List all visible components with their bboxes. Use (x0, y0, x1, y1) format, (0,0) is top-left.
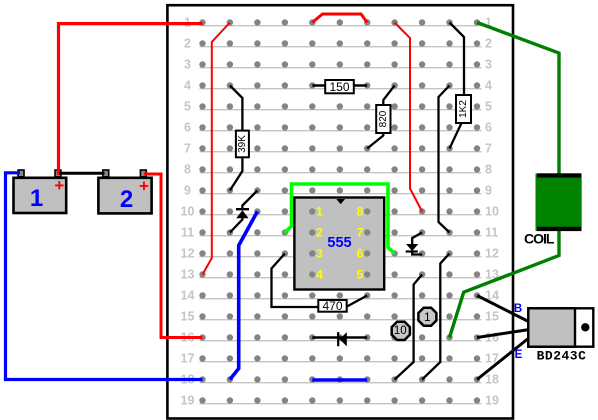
wire red jumper row1 col5 to row1 col7 (312, 14, 367, 23)
wire red battery1 positive to board row 1 (59, 24, 203, 175)
svg-text:E: E (515, 349, 523, 361)
svg-text:19: 19 (181, 394, 195, 408)
svg-text:3: 3 (184, 58, 191, 72)
svg-text:4: 4 (485, 79, 492, 93)
wire black transistor base lead from row14 col11 (477, 296, 530, 323)
svg-text:1: 1 (424, 310, 431, 324)
svg-text:7: 7 (184, 142, 191, 156)
wire black jumper row13 col9 to row18 col8 (395, 275, 423, 380)
battery B2 (98, 170, 151, 213)
svg-text:150: 150 (329, 80, 349, 94)
wire blue jumper row18 col5 to row18 col7 (312, 378, 367, 381)
coil L1 (524, 173, 582, 246)
wire green coil top to board row1 col11 (477, 23, 559, 177)
svg-text:39K: 39K (237, 135, 248, 153)
resistor R2 150 (325, 80, 354, 94)
svg-text:6: 6 (184, 121, 191, 135)
resistor R4 1K2 (456, 95, 471, 123)
svg-text:+: + (54, 176, 64, 195)
svg-text:1: 1 (30, 185, 43, 212)
svg-text:18: 18 (485, 373, 499, 387)
svg-text:19: 19 (485, 394, 499, 408)
svg-text:7: 7 (357, 226, 364, 240)
svg-text:14: 14 (181, 289, 195, 303)
svg-text:11: 11 (485, 226, 498, 240)
diode D1 leads and symbol (230, 191, 258, 233)
svg-text:9: 9 (485, 184, 492, 198)
svg-text:BD243C: BD243C (537, 349, 587, 364)
resistor 39K leads (230, 86, 243, 191)
resistor 1K2 leads (450, 23, 465, 149)
svg-text:4: 4 (184, 79, 191, 93)
svg-text:1K2: 1K2 (458, 100, 469, 118)
wire bright green bracket row11 col4 to row12 col8 (285, 184, 395, 254)
diode D2 leads and symbol (406, 233, 422, 255)
wire blue jumper row10 col3 to row18 col2 (230, 212, 258, 380)
wire black transistor collector lead from row16 col11 (477, 330, 530, 338)
transistor Q1 BD243C (514, 303, 593, 364)
svg-text:2: 2 (316, 226, 323, 240)
svg-text:1: 1 (316, 205, 323, 219)
svg-text:6: 6 (485, 121, 492, 135)
svg-text:+: + (139, 176, 149, 195)
svg-text:5: 5 (184, 100, 191, 114)
wire green coil bottom to board row16 col10 (450, 228, 560, 338)
svg-text:12: 12 (485, 247, 499, 261)
wire blue battery1 negative to board row 18 (6, 173, 203, 380)
svg-text:15: 15 (181, 310, 195, 324)
svg-text:2: 2 (184, 37, 191, 51)
wire black transistor emitter lead from row18 col11 (477, 338, 530, 380)
wire black jumper row4 col10 to row11 col10 (439, 86, 450, 233)
svg-text:10: 10 (181, 205, 195, 219)
resistor 470 leads (272, 254, 368, 308)
resistor R5 470 (318, 299, 346, 313)
svg-text:B: B (514, 303, 522, 315)
svg-text:6: 6 (357, 247, 364, 261)
svg-text:2: 2 (485, 37, 492, 51)
diode D3 (312, 332, 367, 346)
svg-text:3: 3 (485, 58, 492, 72)
resistor 150 leads (312, 84, 367, 87)
capacitor C2 1uF (418, 308, 436, 326)
svg-text:8: 8 (357, 205, 364, 219)
svg-text:5: 5 (485, 100, 492, 114)
svg-text:10: 10 (394, 325, 407, 337)
svg-text:10: 10 (485, 205, 499, 219)
wire black jumper row12 col10 to row18 col9 (422, 254, 449, 380)
svg-text:2: 2 (120, 186, 133, 213)
resistor R3 820 (376, 105, 390, 133)
svg-text:8: 8 (485, 163, 492, 177)
wire red jumper row1 col2 to row13 col1 (203, 23, 230, 275)
svg-text:555: 555 (327, 235, 351, 251)
wire black battery series link (59, 172, 105, 175)
svg-text:9: 9 (184, 184, 191, 198)
svg-text:17: 17 (181, 352, 195, 366)
resistor R1 39K (236, 131, 249, 158)
battery B1 (14, 170, 67, 213)
stripboard (167, 5, 513, 418)
svg-text:4: 4 (316, 268, 323, 282)
svg-text:13: 13 (181, 268, 195, 282)
svg-text:12: 12 (181, 247, 195, 261)
capacitor C1 10uF (392, 322, 410, 340)
svg-text:11: 11 (181, 226, 194, 240)
op-amp U1 555 timer (294, 198, 384, 290)
svg-text:5: 5 (357, 268, 364, 282)
svg-text:15: 15 (485, 310, 499, 324)
svg-text:470: 470 (322, 299, 342, 313)
wire red jumper row1 col8 to row10 col9 (395, 23, 423, 212)
resistor 820 leads (367, 86, 394, 149)
svg-text:3: 3 (316, 247, 323, 261)
wire red battery2 positive to board row 16 (144, 174, 203, 338)
svg-text:16: 16 (485, 331, 499, 345)
svg-text:820: 820 (378, 110, 389, 127)
svg-text:8: 8 (184, 163, 191, 177)
svg-text:7: 7 (485, 142, 492, 156)
svg-text:COIL: COIL (524, 231, 555, 247)
